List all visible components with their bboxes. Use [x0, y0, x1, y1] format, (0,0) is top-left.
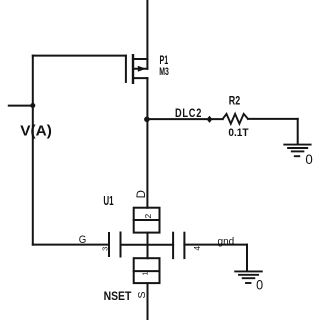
- node DLC2 anchor diamond: [207, 116, 213, 123]
- IC U1 top box midline: [134, 219, 160, 221]
- IC U1 bottom box midline: [134, 270, 160, 272]
- svg-text:0.1T: 0.1T: [228, 127, 248, 139]
- wire gnd horizontal: [184, 244, 247, 246]
- svg-text:R2: R2: [229, 96, 240, 108]
- svg-text:NSET: NSET: [104, 289, 132, 303]
- svg-text:M3: M3: [159, 66, 169, 78]
- wire drain vertical down to U1: [146, 78, 148, 208]
- svg-text:S: S: [136, 291, 148, 298]
- wire gate horizontal: [33, 55, 126, 57]
- resistor R2 zigzag: [223, 114, 248, 124]
- svg-text:gnd: gnd: [218, 236, 235, 247]
- wire down to ground right: [297, 119, 299, 144]
- ground 0 right: [284, 145, 310, 157]
- svg-text:DLC2: DLC2: [175, 106, 202, 120]
- wire G horizontal: [33, 244, 109, 246]
- wire down to ground bottom: [246, 245, 248, 271]
- svg-text:D: D: [136, 190, 148, 198]
- wire left vertical: [32, 56, 34, 245]
- svg-text:0: 0: [305, 151, 313, 167]
- capacitor plate left outer pin3: [108, 233, 110, 256]
- svg-text:3: 3: [100, 247, 109, 251]
- svg-text:2: 2: [143, 213, 153, 218]
- IC U1 bottom box: [134, 258, 160, 283]
- svg-text:U1: U1: [103, 193, 113, 208]
- svg-text:V(A): V(A): [20, 123, 52, 140]
- node junction DLC2: [144, 117, 150, 123]
- IC U1 top box: [134, 208, 160, 233]
- capacitor plate left inner: [120, 233, 122, 257]
- wire between boxes: [147, 233, 149, 259]
- wire center horizontal of U1: [121, 244, 174, 246]
- capacitor plate right inner: [172, 233, 174, 258]
- svg-text:4: 4: [192, 246, 202, 251]
- wire V(A) stub: [9, 105, 33, 107]
- svg-text:1: 1: [143, 271, 150, 275]
- svg-text:0: 0: [256, 276, 263, 292]
- svg-text:G: G: [79, 234, 87, 246]
- capacitor plate right outer pin4: [183, 233, 185, 258]
- transistor P1 M3: [126, 55, 147, 83]
- wire resistor to corner: [248, 118, 298, 120]
- ground 0 bottom: [235, 271, 262, 283]
- node junction V(A): [30, 103, 35, 108]
- wire source bottom vertical: [147, 283, 149, 320]
- wire top supply vertical: [146, 0, 148, 69]
- svg-text:P1: P1: [160, 53, 169, 67]
- wire DLC2 horizontal: [147, 118, 223, 120]
